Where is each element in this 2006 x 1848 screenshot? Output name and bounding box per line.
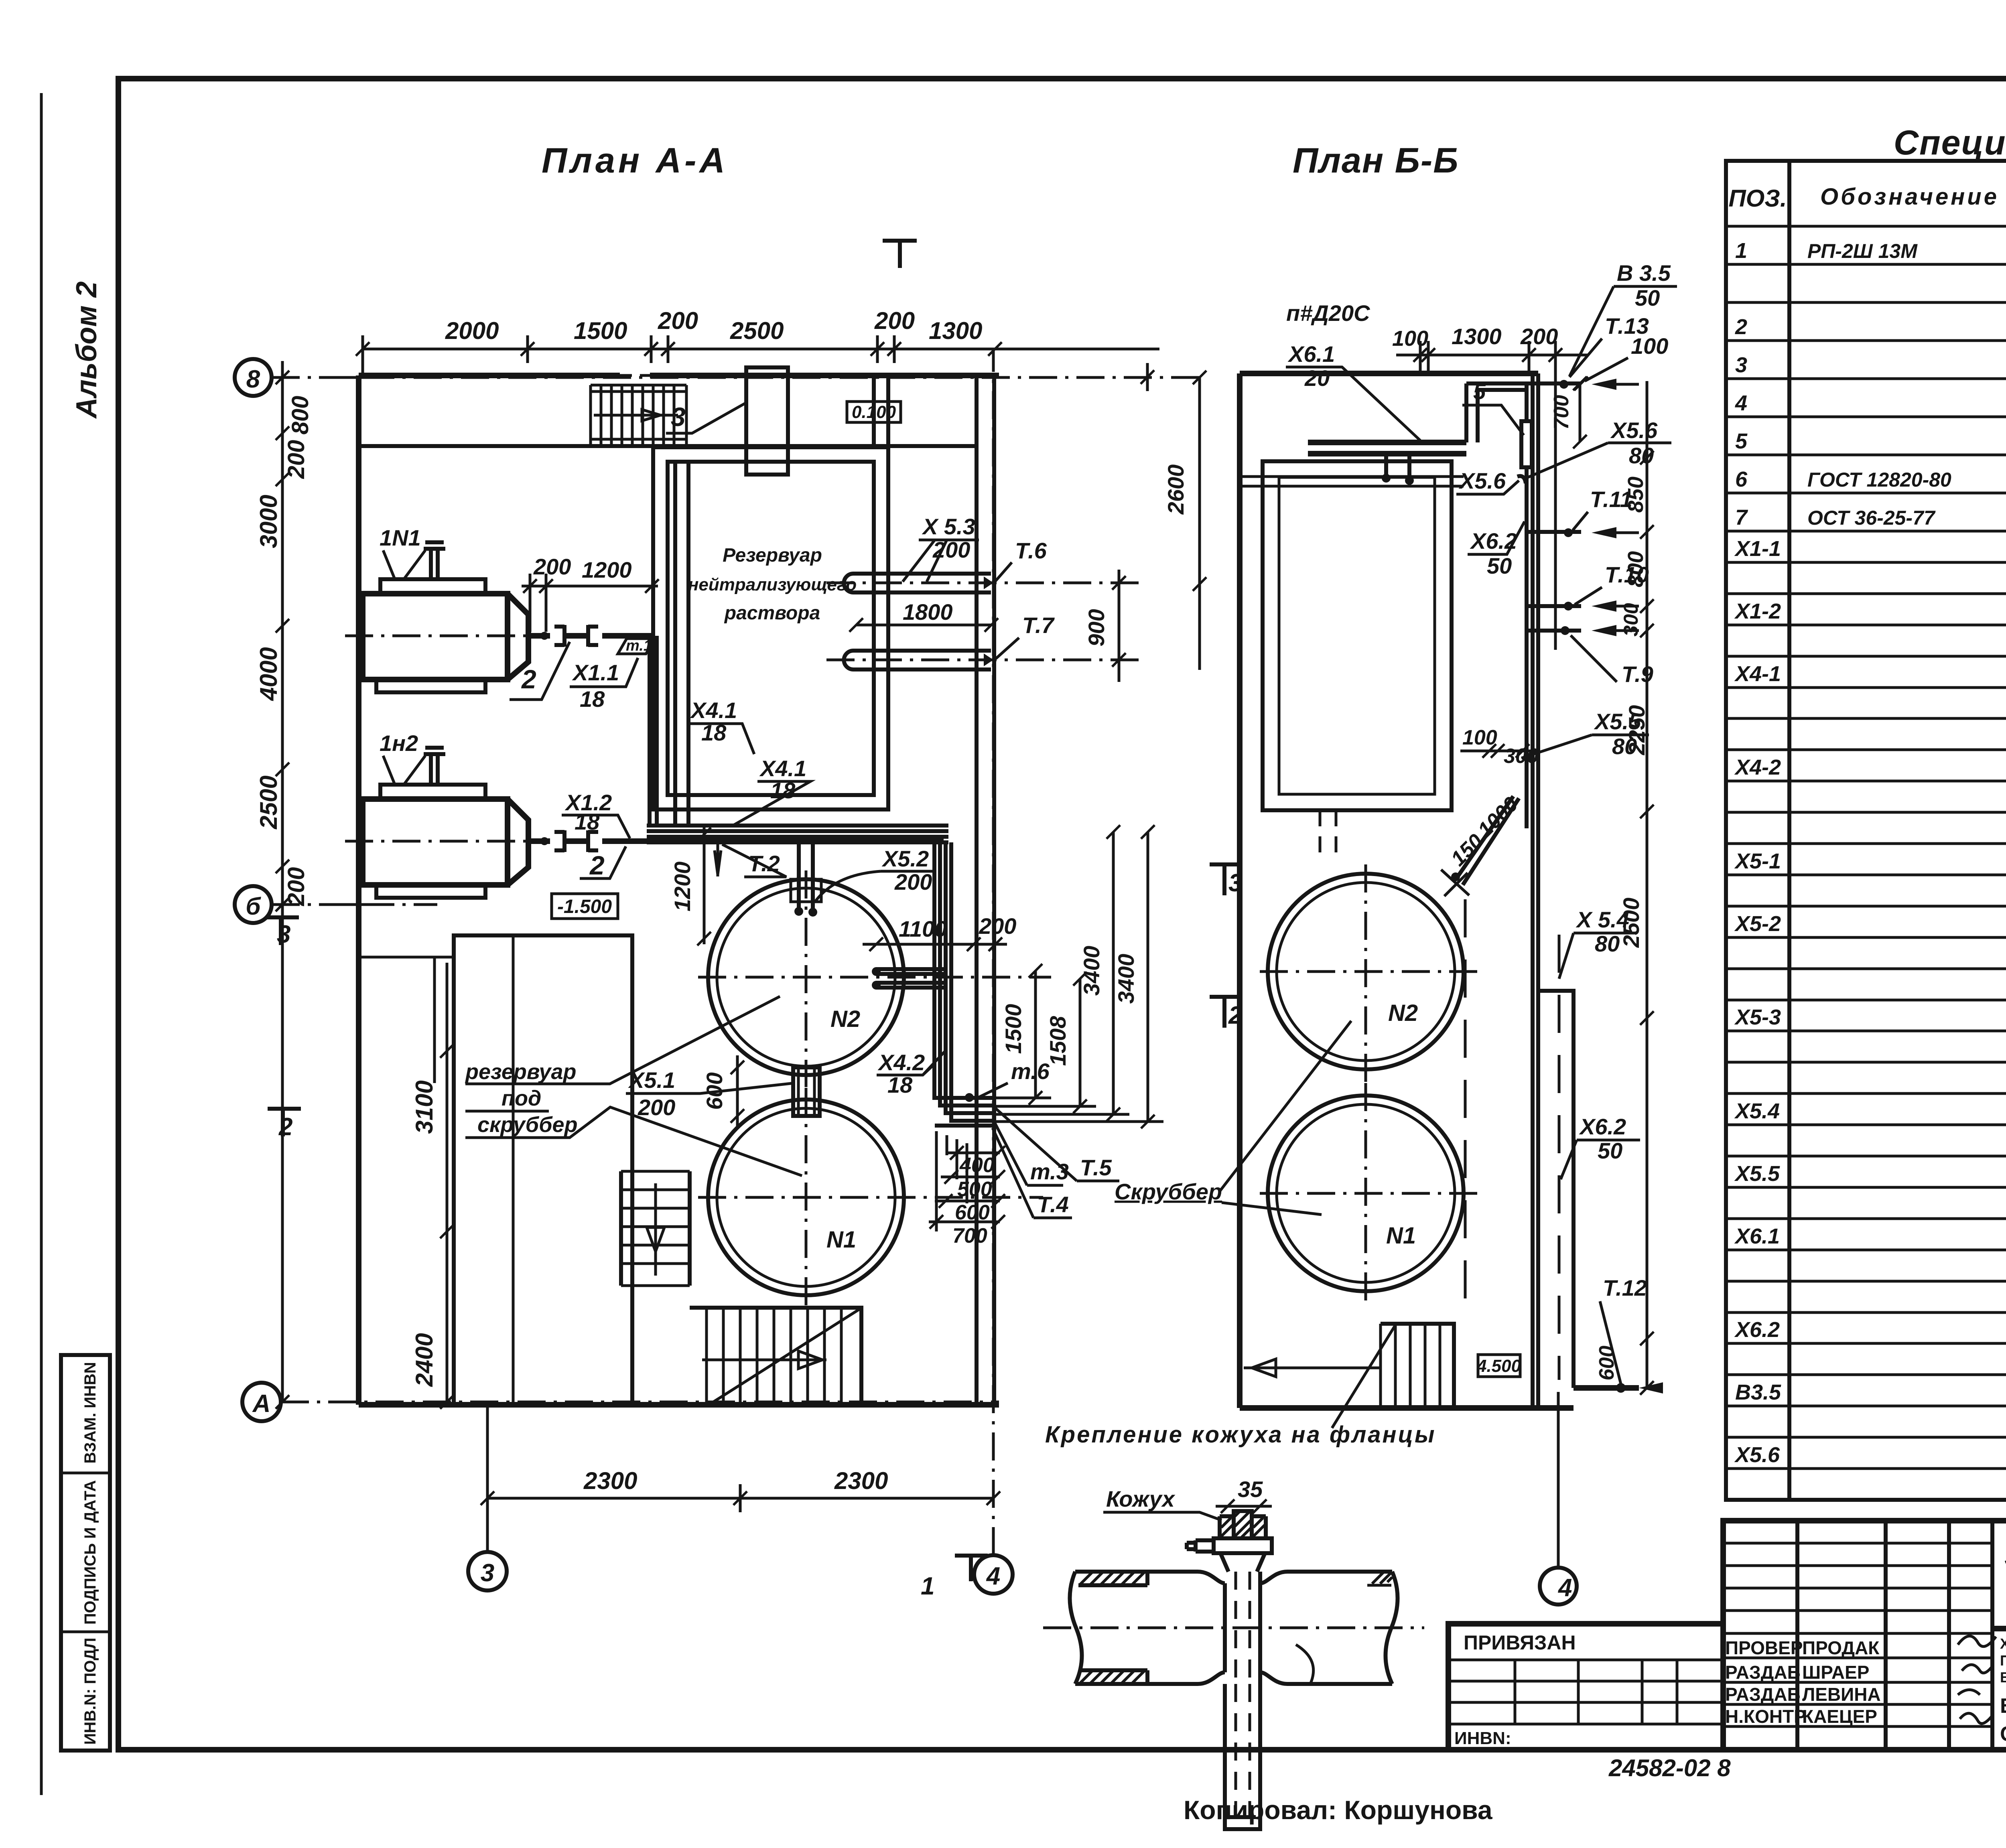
small dim 100 300 (1460, 750, 1537, 753)
dim line 200-1200 (522, 585, 658, 588)
BB ejector item5 rect (1521, 421, 1532, 467)
dim 3400 vertical b (1147, 832, 1149, 1122)
svg-text:X4-1: X4-1 (1734, 662, 1781, 686)
pipe broken end right (1385, 1572, 1397, 1684)
svg-text:N1: N1 (826, 1227, 856, 1253)
dim 700 vertical (1579, 383, 1582, 442)
svg-text:200: 200 (1520, 324, 1558, 349)
svg-text:раствора: раствора (724, 602, 820, 624)
inner chain ticks (440, 1044, 454, 1058)
bolt shaft hatched (1234, 1511, 1252, 1538)
svg-text:X4.1: X4.1 (759, 756, 806, 781)
dashed vertical pipe near tanks (1464, 899, 1467, 1320)
title block signature grid rows (1723, 1543, 1992, 1726)
svg-text:2300: 2300 (834, 1467, 888, 1494)
svg-text:X1.1: X1.1 (572, 660, 619, 685)
svg-text:1: 1 (921, 1572, 934, 1600)
side bolt left (1187, 1540, 1214, 1552)
right channel wall inner (975, 375, 979, 1405)
svg-text:X 5.3: X 5.3 (922, 514, 975, 539)
svg-text:35: 35 (1238, 1477, 1263, 1502)
machine 2 axis (345, 840, 529, 843)
t.2 drop mark (715, 841, 721, 876)
top dimension line (363, 348, 1159, 351)
section mark 1 top (883, 239, 917, 268)
dim 1500 vertical (1034, 971, 1037, 1098)
svg-text:ПРОДАК: ПРОДАК (1802, 1637, 1880, 1658)
elevation 4.500 box (1478, 1355, 1520, 1377)
svg-text:ГОСТ 12820-80: ГОСТ 12820-80 (1807, 469, 1951, 491)
machine 1 top plate (380, 579, 485, 594)
svg-text:800: 800 (287, 396, 313, 435)
building left wall (356, 375, 361, 1405)
in-reservoir pipes X4.1 (675, 463, 688, 826)
m2 coupling left (554, 830, 564, 852)
svg-text:X4.1: X4.1 (690, 698, 737, 723)
BB left wall (1237, 373, 1243, 1408)
svg-text:ВОДИТЕЛЬНОСТЬЮ 50КГ ХЛОРА ВЧАС: ВОДИТЕЛЬНОСТЬЮ 50КГ ХЛОРА ВЧАС (2000, 1669, 2006, 1686)
svg-text:N2: N2 (830, 1006, 860, 1032)
svg-text:КАЕЦЕР: КАЕЦЕР (1802, 1706, 1877, 1727)
svg-text:2400: 2400 (411, 1333, 438, 1387)
svg-text:X5.6: X5.6 (1734, 1443, 1780, 1467)
tank N1 outer (708, 1099, 904, 1295)
title block outer border (1723, 1521, 2006, 1750)
svg-text:б: б (246, 893, 261, 920)
small dims 400-500-600-700 (929, 1131, 1000, 1231)
top dimension extension left (361, 335, 364, 377)
svg-text:В 3.5: В 3.5 (1617, 260, 1671, 286)
svg-text:150: 150 (1446, 830, 1487, 870)
svg-text:3: 3 (671, 402, 686, 432)
tank N1 axes (698, 1088, 1043, 1308)
bottom dim line 2300 2300 (487, 1497, 993, 1500)
svg-text:Скруббер: Скруббер (1115, 1179, 1222, 1204)
BB stair diagonal (1332, 1324, 1396, 1428)
svg-text:БЛОК1. ПЛАНЫ А-А; Б-Б: БЛОК1. ПЛАНЫ А-А; Б-Б (2000, 1694, 2006, 1718)
dim 2600 vertical (1198, 377, 1201, 670)
chute item 3 rect (746, 367, 788, 475)
svg-text:2: 2 (1228, 1002, 1242, 1029)
BB main riser pipe (1525, 383, 1529, 828)
svg-text:2: 2 (1735, 315, 1747, 339)
svg-text:1N1: 1N1 (380, 525, 421, 550)
X5.6 hook on wall (1517, 476, 1526, 483)
svg-text:Т.7: Т.7 (1022, 613, 1055, 638)
svg-text:X5-1: X5-1 (1734, 849, 1781, 873)
svg-text:200: 200 (638, 1095, 675, 1120)
svg-text:4: 4 (1557, 1574, 1572, 1602)
svg-text:ПРИВЯЗАН: ПРИВЯЗАН (1464, 1631, 1576, 1654)
top dimension ticks (356, 342, 370, 356)
svg-text:Т.6: Т.6 (1015, 538, 1047, 563)
BB tank N2 outer (1268, 874, 1464, 1069)
svg-text:ПОЗ.: ПОЗ. (1728, 185, 1787, 212)
svg-text:2500: 2500 (730, 317, 784, 344)
svg-text:Т.4: Т.4 (1037, 1192, 1069, 1217)
svg-text:-1.500: -1.500 (557, 896, 612, 917)
machine 2 bottom plate (376, 885, 485, 898)
axis A circle (242, 1383, 281, 1421)
svg-text:2500: 2500 (1618, 898, 1644, 948)
svg-text:N2: N2 (1388, 1000, 1418, 1026)
top dimension extension stubs (528, 335, 1147, 391)
BB outer channel wall (1538, 991, 1574, 1388)
svg-text:2250: 2250 (1624, 705, 1649, 756)
dim 600 between tanks (736, 1055, 739, 1128)
svg-text:ОСТ 36-25-77: ОСТ 36-25-77 (1807, 507, 1936, 529)
BB top wall (1240, 371, 1538, 376)
BB stair direction line (1244, 1359, 1380, 1377)
svg-text:РАЗДАБ: РАЗДАБ (1725, 1684, 1801, 1705)
svg-text:8: 8 (246, 365, 260, 393)
axis b line (272, 903, 437, 906)
tank N1 inner (717, 1108, 895, 1286)
bolt collar (1214, 1538, 1272, 1553)
BB top right pipe stub (1527, 381, 1581, 385)
machine 2 pipe (528, 838, 944, 844)
tank N2 outer (708, 879, 904, 1075)
connector square between tanks (793, 1067, 820, 1116)
BB bottom pipe (1574, 1385, 1639, 1391)
axis 3 circle (468, 1552, 507, 1590)
svg-text:1100: 1100 (899, 916, 947, 941)
dim 900 vertical (1118, 570, 1121, 682)
t.1 flag (618, 639, 655, 654)
svg-text:Т.12: Т.12 (1603, 1275, 1647, 1300)
partition wall above reservoir (874, 375, 888, 447)
BB wall ledge lines (1240, 477, 1464, 486)
spec table column lines (1789, 161, 2006, 1500)
pipe bundle down zigzag (934, 842, 995, 1126)
pipe coupling right (588, 625, 598, 647)
svg-text:500: 500 (957, 1178, 992, 1201)
machine 2 nose (508, 799, 528, 885)
machine 2 top plate (380, 785, 485, 799)
svg-text:1500: 1500 (1001, 1004, 1026, 1054)
svg-text:ШРАЕР: ШРАЕР (1802, 1662, 1869, 1683)
BB tank N1 axes (1260, 1083, 1484, 1306)
svg-text:1300: 1300 (1452, 324, 1502, 349)
svg-text:X5.6: X5.6 (1458, 468, 1506, 493)
reservoir outer wall (653, 447, 888, 809)
bolt nut sides (1220, 1516, 1266, 1538)
dim 1508 vertical (1079, 979, 1082, 1106)
privyazan block border (1448, 1624, 1723, 1750)
pipe loop t.6 (844, 574, 991, 592)
building bottom wall (359, 1402, 999, 1408)
building top wall (359, 373, 999, 378)
N2 top collar (791, 879, 821, 902)
svg-text:ПРОВЕР: ПРОВЕР (1725, 1637, 1803, 1658)
axis 4 leader BB (1557, 1392, 1560, 1568)
svg-text:3: 3 (481, 1559, 494, 1587)
svg-text:200: 200 (283, 440, 309, 479)
dim 1100-200 line (863, 943, 1007, 946)
diag fitting (1441, 870, 1469, 896)
svg-text:600: 600 (955, 1201, 990, 1224)
svg-text:резервуар: резервуар (465, 1060, 577, 1084)
svg-text:3100: 3100 (411, 1080, 438, 1134)
svg-text:ЛЕВИНА: ЛЕВИНА (1802, 1684, 1881, 1705)
svg-text:2300: 2300 (583, 1467, 637, 1494)
svg-text:А: А (252, 1390, 271, 1418)
svg-text:3: 3 (1228, 869, 1242, 897)
inner left chain line (446, 963, 449, 1402)
svg-text:20: 20 (1304, 365, 1330, 391)
BB pipe hooks (1386, 454, 1409, 475)
tall pit rectangle (454, 935, 632, 1405)
machine 1 body (363, 594, 508, 680)
svg-text:СПЕЦИФИКАЦИЯ: СПЕЦИФИКАЦИЯ (2000, 1722, 2006, 1746)
t.11 stub (1527, 530, 1581, 534)
BB dashed pipe X6.2 (1558, 935, 1561, 1380)
svg-text:Кожух: Кожух (1106, 1486, 1176, 1511)
svg-text:50: 50 (1598, 1138, 1622, 1163)
axis 8 line (272, 376, 1202, 379)
BB tank N1 inner (1277, 1104, 1455, 1282)
left room partition (359, 957, 454, 1083)
svg-text:X5.2: X5.2 (881, 846, 929, 871)
svg-text:200: 200 (283, 867, 309, 907)
dim bottom extension stubs (995, 1098, 1163, 1122)
svg-text:4: 4 (986, 1562, 1000, 1590)
svg-text:1200: 1200 (582, 557, 632, 582)
svg-text:1500: 1500 (574, 317, 627, 344)
svg-text:Резервуар: Резервуар (723, 545, 822, 566)
bolt shank through pipe (1236, 1572, 1250, 1684)
pipe bundle horizontal (647, 826, 948, 842)
pipe coupling left (554, 625, 564, 647)
svg-text:2: 2 (589, 850, 605, 880)
svg-text:План Б-Б: План Б-Б (1293, 140, 1459, 180)
svg-text:4000: 4000 (255, 647, 282, 701)
building top wall stair gap dash (620, 374, 650, 377)
machine 1 down pipe double (650, 636, 657, 827)
svg-text:200: 200 (979, 913, 1016, 939)
svg-text:5: 5 (1735, 429, 1748, 453)
elevation 0.100 box (847, 402, 901, 422)
svg-text:3: 3 (277, 921, 290, 948)
BB stair (1381, 1324, 1454, 1408)
svg-text:18: 18 (575, 809, 600, 834)
dim 3400 vertical a (1112, 832, 1115, 1114)
svg-text:1н2: 1н2 (380, 730, 418, 756)
svg-text:X6.2: X6.2 (1734, 1318, 1780, 1342)
svg-text:6: 6 (1735, 467, 1748, 491)
svg-text:N1: N1 (1386, 1223, 1416, 1249)
axis A line (281, 1401, 999, 1404)
BB tank N1 outer (1268, 1095, 1464, 1291)
title block signature grid verticals (1797, 1521, 1992, 1750)
svg-text:1: 1 (1735, 239, 1747, 263)
svg-text:ПОДПИСЬ И ДАТА: ПОДПИСЬ И ДАТА (81, 1480, 99, 1625)
stamp divider 2 (61, 1631, 110, 1633)
svg-text:200: 200 (894, 869, 932, 895)
machine 1 antenna (424, 542, 445, 579)
pipe broken end left (1070, 1572, 1082, 1684)
svg-text:2500: 2500 (255, 775, 282, 829)
broken-out section curve (1296, 1645, 1314, 1684)
pipe body left (1075, 1572, 1225, 1684)
svg-text:ХЛОРАТОРНАЯ ДЛЯ ОБЕЗЗАРАЖИВАНИ: ХЛОРАТОРНАЯ ДЛЯ ОБЕЗЗАРАЖИВАНИЯ (2000, 1635, 2006, 1652)
svg-text:2600: 2600 (1163, 465, 1188, 515)
top stair treads (591, 385, 686, 446)
svg-text:ВЗАМ. ИНВN: ВЗАМ. ИНВN (81, 1362, 99, 1463)
right channel wall outer (992, 375, 996, 1405)
svg-text:100: 100 (1462, 726, 1497, 749)
left wall axis ticks (345, 377, 373, 905)
pipe left wall hatch (1078, 1572, 1147, 1684)
tank N2 axes (698, 870, 1051, 1087)
svg-text:2: 2 (278, 1113, 292, 1141)
svg-text:1200: 1200 (670, 862, 695, 912)
svg-text:X5-2: X5-2 (1734, 912, 1781, 936)
svg-text:X1-1: X1-1 (1734, 537, 1781, 561)
stud bottom plate (1230, 1815, 1256, 1819)
svg-text:3400: 3400 (1079, 946, 1104, 996)
svg-text:B3.5: B3.5 (1735, 1380, 1781, 1404)
svg-text:700: 700 (1550, 395, 1573, 430)
svg-text:Копировал: Коршунова: Копировал: Коршунова (1184, 1795, 1493, 1825)
machine 2 antenna (424, 748, 445, 785)
svg-text:ПИТЬЕВЫХ И СТОЧНЫХ ВОД ПРОИЗ-: ПИТЬЕВЫХ И СТОЧНЫХ ВОД ПРОИЗ- (2000, 1652, 2006, 1669)
svg-text:1000: 1000 (1473, 793, 1523, 842)
section mark 3 left (266, 916, 299, 945)
label 3 leader (666, 403, 745, 433)
svg-text:100: 100 (1631, 333, 1668, 359)
axis b circle (235, 886, 272, 923)
diagonal pipe (1456, 796, 1519, 885)
machine 2 body (363, 799, 508, 885)
svg-text:1300: 1300 (929, 317, 982, 344)
bottom stair upper flight (621, 1171, 690, 1286)
svg-text:X4-2: X4-2 (1734, 755, 1781, 779)
BB top dim 100 1300 200 (1396, 354, 1589, 357)
svg-text:X5.1: X5.1 (628, 1067, 675, 1093)
axis 3 leader (486, 1405, 489, 1552)
BB bottom wall (1240, 1405, 1574, 1411)
svg-text:3400: 3400 (1113, 954, 1139, 1004)
svg-text:нейтрализующего: нейтрализующего (688, 575, 857, 594)
svg-text:800: 800 (1624, 551, 1648, 587)
svg-text:п#Д20С: п#Д20С (1286, 300, 1370, 326)
BB right dim chain (1646, 381, 1649, 1388)
top stair rails (591, 385, 686, 446)
bolt below collar taper (1220, 1553, 1265, 1572)
t.10 stub (1527, 604, 1581, 608)
svg-text:X6.2: X6.2 (1579, 1114, 1626, 1139)
left chain ticks (276, 371, 289, 384)
svg-text:X4.2: X4.2 (877, 1050, 925, 1075)
axis 4 circle BB (1540, 1568, 1577, 1605)
svg-text:850: 850 (1624, 477, 1648, 513)
elevation -1.500 box (552, 894, 618, 919)
top stair arrow (594, 410, 678, 421)
svg-text:т.3: т.3 (1030, 1159, 1069, 1184)
svg-text:РП-2Ш 13М: РП-2Ш 13М (1807, 240, 1918, 262)
svg-text:Н.КОНТР: Н.КОНТР (1725, 1706, 1806, 1727)
BB reservoir bottom stubs (1320, 810, 1336, 858)
svg-text:ИНВ.N: ПОДЛ: ИНВ.N: ПОДЛ (81, 1638, 99, 1745)
signature scribbles (1958, 1636, 1996, 1724)
section mark 3 BB (1210, 864, 1241, 895)
BB riser to wall (1466, 383, 1527, 442)
svg-text:Спецификация: Спецификация (1894, 124, 2006, 162)
left stamp table (61, 1355, 110, 1751)
bottom stair lower flight (690, 1308, 861, 1405)
svg-text:300: 300 (1620, 603, 1642, 637)
m2 coupling right (588, 830, 598, 852)
N2 top connection pipes (799, 842, 813, 910)
svg-text:50: 50 (1635, 285, 1660, 310)
svg-text:X5.4: X5.4 (1734, 1099, 1780, 1123)
spec table row lines (1726, 226, 2006, 1500)
stamp divider 1 (61, 1472, 110, 1475)
BB right wall (1533, 373, 1538, 1408)
tank N2 inner (717, 888, 895, 1066)
svg-text:X5-3: X5-3 (1734, 1005, 1781, 1029)
privyazan grid (1448, 1660, 1723, 1724)
N2 right connection (876, 969, 944, 988)
left dimension chain line (281, 361, 284, 1402)
svg-text:901-7-47.90: 901-7-47.90 (2004, 1534, 2006, 1574)
svg-text:т.6: т.6 (1011, 1059, 1050, 1084)
dim 1200 vertical (703, 826, 706, 944)
spec table outer border (1726, 161, 2006, 1500)
svg-text:200: 200 (533, 554, 571, 579)
axis 8 circle (235, 359, 272, 396)
pipe axis (1043, 1627, 1424, 1629)
bottom stair arrow (647, 1183, 664, 1276)
svg-text:Обозначение: Обозначение (1820, 184, 1999, 210)
svg-text:400: 400 (959, 1154, 995, 1177)
svg-text:Т.5: Т.5 (1080, 1155, 1112, 1180)
svg-text:200: 200 (658, 307, 698, 334)
pipe right hatch (1367, 1572, 1392, 1585)
svg-text:3000: 3000 (255, 495, 282, 548)
BB reservoir inner (1279, 477, 1435, 794)
BB tank N2 inner (1277, 882, 1455, 1061)
svg-text:18: 18 (580, 686, 605, 712)
reservoir inner wall (668, 462, 874, 795)
stud below pipe (1225, 1684, 1260, 1829)
machine 1 nose (508, 594, 528, 680)
svg-text:600: 600 (1595, 1346, 1618, 1381)
svg-text:X5.6: X5.6 (1610, 418, 1658, 443)
title block main divider (1992, 1626, 2006, 1631)
svg-text:под: под (501, 1086, 541, 1110)
section mark 2 left (268, 1107, 301, 1136)
svg-text:РАЗДАБ: РАЗДАБ (1725, 1662, 1801, 1683)
svg-text:3: 3 (1735, 353, 1747, 377)
svg-text:2: 2 (521, 664, 536, 694)
svg-text:300: 300 (1504, 744, 1539, 768)
svg-text:План А-А: План А-А (542, 140, 728, 180)
svg-text:4: 4 (1735, 391, 1747, 415)
sheet left edge line (40, 93, 43, 1795)
top wall inner face (359, 444, 977, 448)
pipe body right (1260, 1572, 1392, 1684)
section mark 2 BB (1210, 997, 1241, 1028)
section mark 1 bottom (955, 1556, 988, 1581)
svg-text:X5.5: X5.5 (1734, 1162, 1780, 1186)
axis 4 circle (974, 1555, 1013, 1594)
BB top pipe bundle (1308, 442, 1466, 454)
svg-text:24582-02 8: 24582-02 8 (1608, 1755, 1731, 1781)
svg-text:Альбом 2: Альбом 2 (71, 281, 103, 419)
pipe loop t.7 (844, 651, 991, 669)
